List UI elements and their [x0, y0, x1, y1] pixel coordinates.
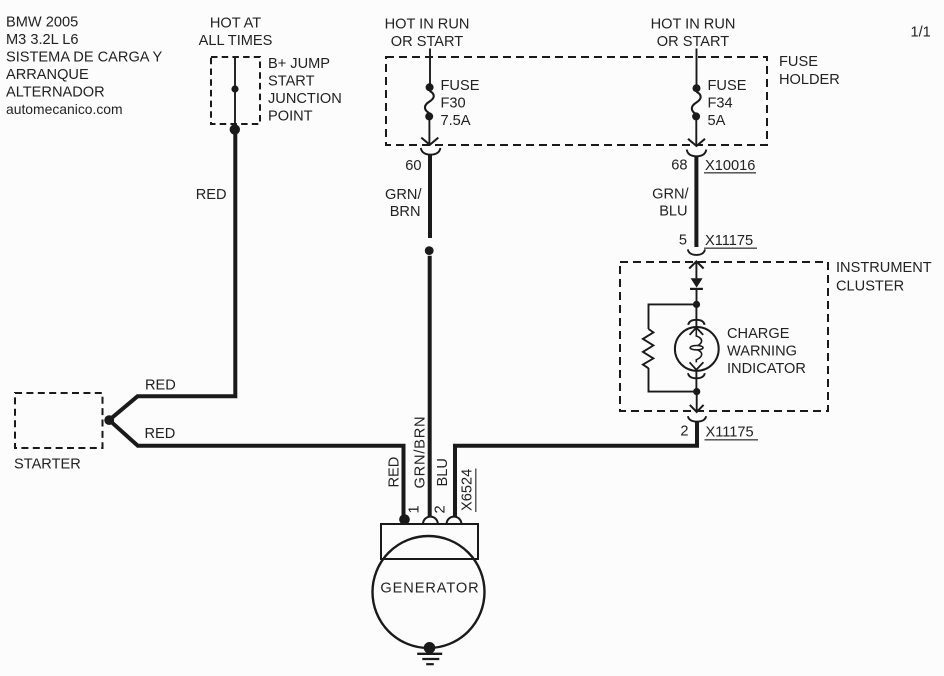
label FUSE HOLDER: [779, 54, 840, 88]
lamp filament: [690, 328, 703, 362]
svg-text:INSTRUMENT: INSTRUMENT: [836, 260, 932, 276]
svg-text:CHARGE: CHARGE: [727, 326, 790, 342]
lamp L1: charge warning indicator bulb: [675, 327, 719, 371]
wire GRN/BRN from splice to generator pin 1: [428, 256, 432, 518]
svg-text:INDICATOR: INDICATOR: [727, 361, 806, 377]
svg-text:BRN: BRN: [390, 204, 421, 220]
instrument cluster dashed box: [620, 262, 828, 411]
connector socket 68 X10016: [687, 150, 707, 157]
lamp bottom socket bracket: [688, 373, 705, 378]
label HOT IN RUN OR START (right): [651, 16, 736, 50]
svg-text:RED: RED: [387, 457, 403, 488]
generator socket pin 1: [423, 517, 438, 524]
svg-text:X10016: X10016: [705, 158, 755, 174]
node: B+ splice dot at box bottom: [230, 124, 240, 134]
value label FUSE F34 5A: [708, 78, 747, 129]
wire BLU from cluster to generator pin 2: [455, 422, 697, 518]
wire from fuse F34 to connector 68: [695, 119, 697, 146]
node: lamp top junction: [693, 301, 700, 308]
svg-text:F30: F30: [441, 96, 466, 112]
label INSTRUMENT CLUSTER: [836, 260, 932, 294]
svg-text:1/1: 1/1: [911, 25, 931, 41]
fuse F30 symbol: [425, 83, 434, 120]
lamp top arrow: [690, 328, 704, 335]
svg-text:7.5A: 7.5A: [441, 113, 471, 129]
svg-text:automecanico.com: automecanico.com: [6, 101, 123, 117]
svg-text:BMW 2005: BMW 2005: [6, 15, 78, 31]
label HOT IN RUN OR START (left): [385, 16, 470, 50]
svg-text:5: 5: [679, 232, 687, 248]
wire node to lamp: [695, 304, 697, 327]
svg-text:ARRANQUE: ARRANQUE: [6, 67, 89, 83]
generator terminal box: [381, 524, 478, 559]
label B+ JUMP START JUNCTION POINT: [268, 56, 342, 125]
arrow into connector 68: [688, 139, 705, 146]
value label GRN/BLU: [652, 187, 689, 220]
svg-text:60: 60: [405, 158, 421, 174]
wire to cluster exit: [696, 392, 698, 412]
svg-text:X11175: X11175: [705, 233, 753, 249]
svg-text:START: START: [268, 74, 315, 90]
svg-text:M3 3.2L L6: M3 3.2L L6: [6, 32, 78, 48]
svg-text:FUSE: FUSE: [779, 54, 818, 70]
svg-text:OR START: OR START: [391, 34, 464, 50]
label CHARGE WARNING INDICATOR: [727, 326, 806, 377]
svg-text:FUSE: FUSE: [708, 78, 747, 94]
wire GRN/BRN from connector to splice: [428, 155, 432, 238]
fuse F34 symbol: [692, 84, 701, 120]
connector socket 60: [421, 148, 441, 155]
svg-text:SISTEMA DE CARGA Y: SISTEMA DE CARGA Y: [6, 50, 163, 66]
svg-text:HOT IN RUN: HOT IN RUN: [651, 16, 736, 32]
svg-text:GRN/: GRN/: [385, 187, 422, 203]
svg-text:BLU: BLU: [659, 204, 687, 220]
wire RED from B+ junction to starter and generator B+: [109, 131, 403, 517]
generator G1 body: [373, 536, 485, 648]
svg-text:JUNCTION: JUNCTION: [268, 91, 342, 107]
lamp top socket bracket: [688, 320, 704, 325]
wire diode to node: [696, 289, 698, 305]
svg-text:GENERATOR: GENERATOR: [380, 580, 479, 596]
svg-text:ALTERNADOR: ALTERNADOR: [6, 85, 105, 101]
diode D1: [690, 278, 703, 289]
svg-text:F34: F34: [708, 96, 733, 112]
ground symbol: [417, 654, 442, 664]
svg-text:X6524: X6524: [460, 469, 476, 511]
node: junction dot in B+ box: [231, 85, 238, 92]
svg-text:FUSE: FUSE: [441, 78, 480, 94]
svg-text:68: 68: [671, 158, 687, 174]
svg-text:BLU: BLU: [435, 458, 451, 486]
svg-text:RED: RED: [196, 187, 227, 203]
arrow into cluster (up): [689, 261, 703, 268]
fuse holder dashed box: [386, 57, 767, 145]
svg-text:2: 2: [433, 505, 449, 513]
generator socket pin 2: [447, 517, 462, 524]
svg-text:ALL TIMES: ALL TIMES: [199, 33, 273, 49]
B+ jump start junction point dashed box: [211, 57, 260, 124]
wire into fuse F30: [429, 49, 431, 86]
arrow into connector 60: [421, 138, 438, 145]
svg-text:HOT IN RUN: HOT IN RUN: [385, 16, 470, 32]
svg-text:RED: RED: [145, 426, 176, 442]
connector socket 2 X11175: [688, 416, 706, 421]
connector socket 5 X11175: [688, 249, 705, 255]
wire lamp to bottom node: [695, 371, 697, 392]
label HOT AT ALL TIMES: [199, 16, 273, 50]
svg-text:GRN/: GRN/: [652, 187, 689, 203]
value label GRN/BRN: [385, 187, 422, 220]
svg-text:POINT: POINT: [268, 109, 313, 125]
svg-text:5A: 5A: [708, 113, 726, 129]
svg-text:1: 1: [407, 505, 423, 513]
svg-text:GRN/BRN: GRN/BRN: [413, 416, 429, 489]
node: GRN/BRN splice dot: [425, 246, 434, 255]
svg-text:HOT AT: HOT AT: [210, 16, 261, 32]
node: lamp bottom junction: [693, 388, 700, 395]
wire inside B+ box: [234, 57, 236, 128]
svg-text:CLUSTER: CLUSTER: [836, 278, 904, 294]
wire from fuse F30 to connector 60: [428, 119, 430, 145]
starter dashed box: [15, 393, 103, 448]
value label FUSE F30 7.5A: [441, 78, 480, 129]
node: starter splice dot: [104, 415, 114, 425]
svg-text:HOLDER: HOLDER: [779, 72, 840, 88]
svg-text:X11175: X11175: [706, 425, 754, 441]
wire GRN/BLU: [694, 156, 698, 247]
svg-text:OR START: OR START: [657, 34, 730, 50]
wire into fuse F34: [696, 49, 698, 87]
lamp bottom arrow: [690, 362, 704, 369]
svg-text:2: 2: [680, 423, 688, 439]
node: generator B+ stud dot: [399, 514, 410, 525]
resistor R1: [643, 329, 654, 368]
svg-text:WARNING: WARNING: [727, 343, 797, 359]
arrow out of cluster (down): [690, 405, 704, 412]
node: generator ground dot: [424, 642, 436, 654]
svg-text:RED: RED: [145, 378, 176, 394]
title block text: [6, 15, 163, 118]
svg-text:STARTER: STARTER: [14, 457, 81, 473]
svg-text:B+ JUMP: B+ JUMP: [268, 56, 330, 72]
wire resistor branch bottom: [649, 368, 697, 392]
wire resistor branch top: [649, 304, 697, 329]
